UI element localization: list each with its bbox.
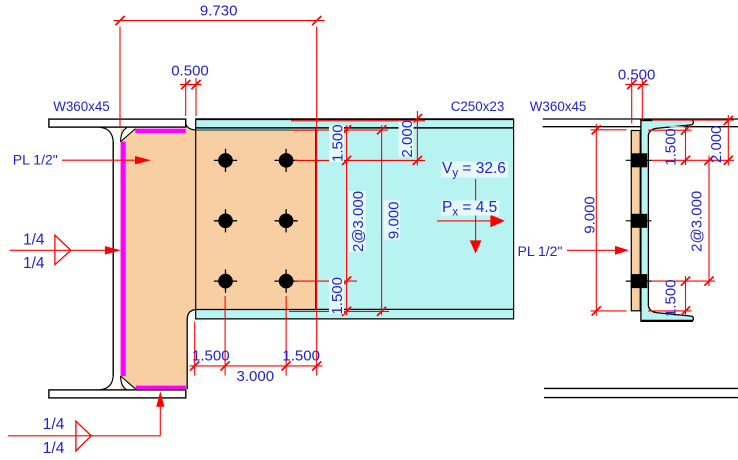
svg-text:W360x45: W360x45 (530, 99, 587, 114)
svg-text:1.500: 1.500 (329, 277, 346, 315)
svg-text:9.730: 9.730 (200, 2, 238, 19)
svg-text:1/4: 1/4 (23, 255, 45, 272)
svg-text:1.500: 1.500 (663, 128, 680, 166)
svg-text:2@3.000: 2@3.000 (689, 191, 706, 252)
svg-text:1/4: 1/4 (43, 440, 65, 457)
svg-text:2.000: 2.000 (399, 120, 416, 158)
svg-text:C250x23: C250x23 (451, 99, 505, 114)
svg-text:9.000: 9.000 (581, 196, 598, 234)
svg-text:1/4: 1/4 (23, 231, 45, 248)
svg-text:1.500: 1.500 (282, 348, 320, 365)
svg-text:3.000: 3.000 (237, 368, 275, 385)
svg-text:W360x45: W360x45 (53, 99, 110, 114)
svg-text:2@3.000: 2@3.000 (350, 191, 367, 252)
svg-text:1.500: 1.500 (663, 279, 680, 317)
svg-text:0.500: 0.500 (171, 63, 209, 80)
svg-text:Vy = 32.6: Vy = 32.6 (442, 160, 506, 180)
svg-text:Px = 4.5: Px = 4.5 (442, 199, 497, 219)
svg-text:0.500: 0.500 (618, 67, 656, 84)
svg-text:2.000: 2.000 (708, 126, 725, 164)
svg-text:1.500: 1.500 (192, 348, 230, 365)
svg-text:PL 1/2": PL 1/2" (518, 243, 563, 259)
svg-text:9.000: 9.000 (385, 202, 402, 240)
svg-text:1/4: 1/4 (43, 416, 65, 433)
svg-text:PL 1/2": PL 1/2" (13, 152, 58, 168)
svg-text:1.500: 1.500 (329, 124, 346, 162)
